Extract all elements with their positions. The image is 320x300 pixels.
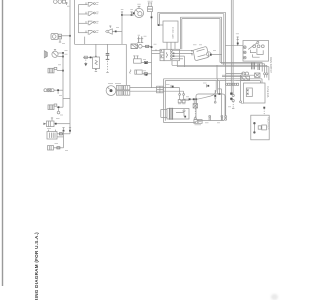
node <box>193 98 195 100</box>
switch 3 <box>79 21 99 25</box>
crossbar bus B to bus A <box>63 98 70 100</box>
handlebar switch bus <box>78 5 80 33</box>
junction pin inside enclosure 2 <box>207 84 210 87</box>
node <box>189 98 191 100</box>
dashed pin into L <box>263 108 265 115</box>
enclosure bottom <box>164 122 197 124</box>
ignition relay <box>130 70 143 75</box>
stub from switch 4 <box>84 37 86 45</box>
enclosure right drops <box>217 79 219 94</box>
B2 left wires <box>161 108 167 110</box>
regulator box L <box>251 115 269 140</box>
node <box>69 130 71 132</box>
bullet connector <box>57 147 60 149</box>
wire diode to bus B <box>54 89 63 91</box>
long feed wire <box>75 43 127 45</box>
svg-text:C.D.I. unit: C.D.I. unit <box>171 27 175 39</box>
bus D vertical <box>151 12 153 88</box>
bus fan line 1 <box>220 61 262 63</box>
node <box>195 98 197 100</box>
rectifier-regulator B2 <box>167 108 189 120</box>
connector K <box>148 1 153 11</box>
rectifier <box>93 55 100 71</box>
node <box>145 74 147 76</box>
wire lamp feed <box>122 14 134 16</box>
svg-text:RECTIFIER: RECTIFIER <box>267 117 270 130</box>
rectifier feed <box>95 44 97 55</box>
bullet connector <box>144 61 147 63</box>
bullet connector <box>59 133 62 135</box>
branch up bus B <box>62 99 64 108</box>
CDI unit box <box>163 21 178 42</box>
wire switch to bus A <box>54 123 70 125</box>
spark plug caps <box>137 35 143 43</box>
condenser wire <box>141 62 151 64</box>
wire connector1 to bus B <box>57 70 63 72</box>
node below P1 <box>158 24 160 26</box>
harness pair P2 <box>180 17 221 64</box>
horn coil <box>52 49 58 57</box>
tail lamp (top, cut off) <box>54 0 68 5</box>
fan corner drops right <box>261 62 263 71</box>
twin connector boxes <box>194 120 202 124</box>
indicator horn <box>106 26 113 35</box>
node <box>57 89 59 91</box>
node <box>63 130 65 132</box>
harness curve into battery box <box>197 81 217 99</box>
condenser box with pins <box>193 100 198 108</box>
diode unit <box>44 89 54 92</box>
short bus lines lower <box>226 73 244 75</box>
horn speaker <box>44 51 47 58</box>
node <box>58 106 60 108</box>
bus fan line 3 <box>172 64 267 66</box>
R bottom connector 2 <box>221 115 223 120</box>
CDI bottom pins <box>166 42 168 49</box>
node <box>145 62 147 64</box>
bus A vertical <box>69 0 71 134</box>
dashed drop with arrow <box>85 60 87 63</box>
relay output wire <box>212 54 222 56</box>
relay wire <box>142 73 151 75</box>
wire connector2 <box>57 106 63 108</box>
connector on generator wires <box>157 86 164 93</box>
fuse box B3 <box>244 83 266 103</box>
pin tick <box>57 91 59 93</box>
ignition coil <box>131 44 142 49</box>
connector pair below B1 <box>241 72 250 80</box>
bus fan line 2 <box>222 63 265 65</box>
vertical wires from top edge <box>230 0 232 93</box>
junction pins on lamp feed <box>121 10 124 16</box>
node <box>90 57 92 59</box>
drop from fan to enclosure <box>216 65 218 79</box>
node <box>55 123 57 125</box>
G2 drop wires <box>171 61 173 66</box>
pin ticks above nodes <box>63 127 65 129</box>
junction pin inside enclosure <box>171 85 174 88</box>
generator drop <box>125 44 127 85</box>
crossed connector box <box>255 73 260 77</box>
drop wire with ring <box>240 75 242 101</box>
capacitor <box>106 44 110 72</box>
node on bus A <box>69 35 71 37</box>
relay pins left <box>191 50 193 52</box>
connector pins right <box>264 73 266 75</box>
connector block 1 <box>48 67 57 73</box>
coil wire to bus D <box>142 45 151 47</box>
wire indicator to bus C <box>113 30 123 32</box>
rectifier input wire <box>83 56 93 58</box>
label above B2 <box>180 100 189 102</box>
drop wire right of R <box>218 88 222 90</box>
wires bus D to G1 <box>152 50 161 52</box>
fuse 2 <box>182 94 185 104</box>
dashed ground drop <box>194 108 196 117</box>
switch 1 <box>79 2 99 6</box>
battery wires <box>57 133 70 135</box>
bus A2 vertical <box>74 0 76 44</box>
harness pair P1 <box>158 12 226 66</box>
connector grid G1 <box>160 49 164 60</box>
ring connector row <box>225 83 238 85</box>
pin on wire <box>237 37 239 46</box>
wire node to CDI <box>159 24 163 26</box>
condenser <box>133 56 141 64</box>
fuse <box>48 146 54 150</box>
node <box>62 52 64 54</box>
node <box>62 70 64 72</box>
connector block 2 <box>48 104 57 110</box>
node <box>115 31 117 33</box>
wire to main switch <box>225 45 243 47</box>
generator output wires <box>130 87 180 89</box>
head lamp <box>133 4 144 17</box>
node <box>151 46 153 48</box>
switch 4 <box>79 31 99 35</box>
wire with nodes into R <box>184 98 196 100</box>
flasher lamp left <box>51 34 62 43</box>
enclosure frame top pair <box>164 79 263 81</box>
battery unit box R <box>196 90 225 121</box>
fuse wire <box>54 147 64 149</box>
node <box>151 16 153 18</box>
enclosure frame right corner drops <box>261 79 263 83</box>
bus B vertical <box>62 53 64 99</box>
ring connector cluster <box>230 93 234 109</box>
node at R top <box>219 93 221 95</box>
horn wires <box>58 52 63 54</box>
battery drop wire <box>63 131 65 148</box>
AC generator stator coils <box>116 86 129 96</box>
bullet connector <box>144 73 147 75</box>
battery <box>47 130 57 139</box>
flasher relay (tilted) <box>193 47 208 61</box>
AC generator rotor <box>106 86 116 96</box>
bus fan line 4 <box>177 66 269 68</box>
bus C vertical <box>121 15 123 44</box>
bullet connector <box>146 45 149 47</box>
pin to ground circle <box>58 108 60 111</box>
svg-text:MAIN SWITCH: MAIN SWITCH <box>269 57 272 73</box>
switch 2 <box>79 12 99 16</box>
vertical drop to R right <box>225 67 227 116</box>
tiny label smudges <box>47 6 244 150</box>
wire flasher to bus A <box>62 35 71 37</box>
enclosure frame left pair <box>164 79 166 123</box>
node <box>62 56 64 58</box>
main switch box B1 <box>243 41 269 71</box>
fuse pins up <box>179 88 181 94</box>
magneto unit box G2 <box>164 49 180 60</box>
ignition switch lower <box>43 118 54 127</box>
R bottom connector 1 <box>209 115 211 120</box>
generator labels <box>108 83 113 85</box>
G2 row wires <box>172 50 192 52</box>
spine edge of scanned page <box>2 0 4 286</box>
fuse 1 <box>178 94 181 104</box>
svg-text:FUSE 10A: FUSE 10A <box>266 86 269 98</box>
bullet connector <box>84 56 87 58</box>
